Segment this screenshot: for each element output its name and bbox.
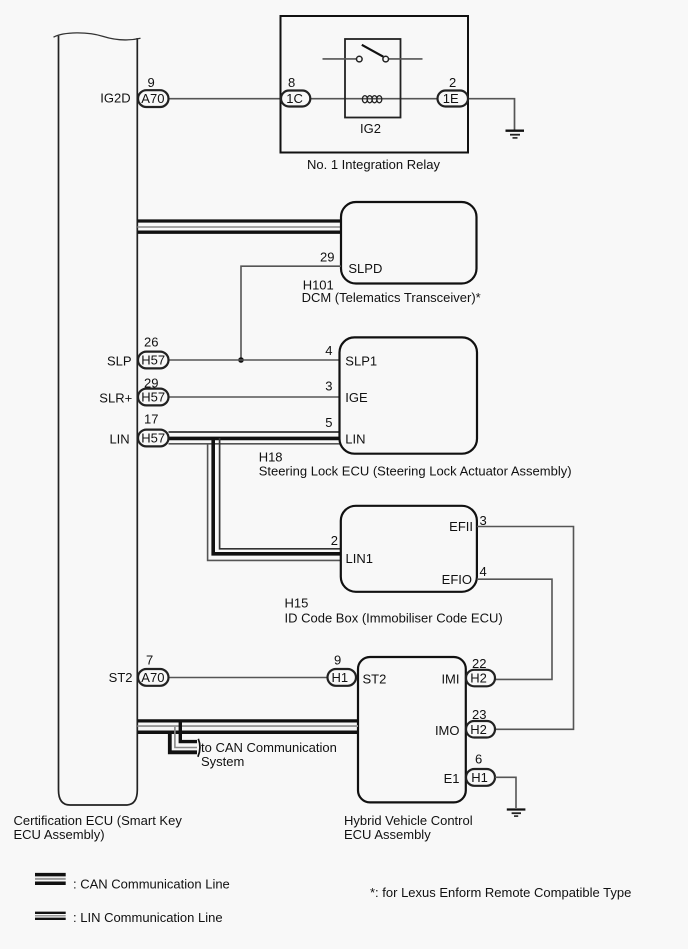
svg-text:1E: 1E: [443, 91, 459, 106]
svg-text:8: 8: [288, 75, 295, 90]
svg-text:LIN: LIN: [109, 432, 129, 447]
svg-text:DCM (Telematics Transceiver)*: DCM (Telematics Transceiver)*: [302, 290, 481, 305]
svg-text:IMO: IMO: [435, 723, 460, 738]
connector H57 pin 17 (LIN): [109, 412, 168, 447]
wire SLPD pin 29 to SLP node: [241, 266, 341, 360]
svg-text:SLP1: SLP1: [345, 354, 377, 369]
svg-text:Hybrid Vehicle Control: Hybrid Vehicle Control: [344, 813, 473, 828]
wire EFIO to IMI: [477, 579, 552, 679]
wire SLP: [169, 359, 340, 361]
svg-text:3: 3: [325, 379, 332, 394]
label H15 / ID Code Box caption: [285, 596, 503, 626]
svg-text:H57: H57: [141, 431, 165, 446]
svg-text:ECU Assembly: ECU Assembly: [344, 827, 431, 842]
wire ST2 A70 to H1: [169, 677, 328, 679]
connector H57 pin 29 (SLR+): [99, 376, 168, 406]
svg-text:IG2: IG2: [360, 121, 381, 136]
svg-text:H57: H57: [141, 353, 165, 368]
label Hybrid caption: [344, 813, 473, 842]
svg-text:ST2: ST2: [109, 670, 133, 685]
svg-text:Certification ECU (Smart Key: Certification ECU (Smart Key: [14, 813, 183, 828]
svg-text:EFIO: EFIO: [442, 572, 472, 587]
wire SLR+ to IGE: [169, 396, 340, 398]
label to CAN Communication System: [201, 740, 337, 769]
relay IG2 inner box: [345, 39, 401, 118]
connector H1 pin 9 (ST2): [328, 653, 357, 686]
svg-text:2: 2: [331, 533, 338, 548]
Certification ECU (Smart Key ECU Assembly) box: [54, 33, 141, 805]
LIN bus branch to ID Code Box: [208, 438, 341, 560]
svg-text:E1: E1: [444, 771, 460, 786]
svg-text:29: 29: [320, 250, 334, 265]
svg-text:22: 22: [472, 656, 486, 671]
svg-text:EFII: EFII: [449, 519, 473, 534]
svg-text:SLPD: SLPD: [348, 261, 382, 276]
svg-text:System: System: [201, 754, 244, 769]
junction node: [238, 357, 244, 363]
svg-text:A70: A70: [141, 91, 164, 106]
svg-text:4: 4: [480, 564, 487, 579]
svg-text:ST2: ST2: [363, 672, 387, 687]
svg-text:H57: H57: [141, 390, 165, 405]
connector 1C pin 8: [281, 75, 310, 107]
connector H1 pin 6 (E1): [466, 752, 495, 786]
svg-text:26: 26: [144, 334, 158, 349]
wire IG2D A70 to relay 1C: [169, 98, 282, 100]
svg-text:SLR+: SLR+: [99, 391, 132, 406]
ID Code Box H15: [341, 506, 477, 592]
svg-text:SLP: SLP: [107, 354, 132, 369]
No. 1 Integration Relay box: [281, 16, 469, 153]
CAN bus wire to DCM: [138, 221, 342, 232]
CAN bus wire to Hybrid ECU: [138, 721, 359, 732]
svg-text:: LIN Communication Line: : LIN Communication Line: [73, 910, 223, 925]
svg-text:Steering Lock ECU (Steering Lo: Steering Lock ECU (Steering Lock Actuato…: [259, 464, 572, 479]
svg-text:: CAN Communication Line: : CAN Communication Line: [73, 877, 230, 892]
legend LIN Communication Line: [35, 910, 223, 925]
relay switch leads: [323, 58, 357, 60]
svg-text:No. 1 Integration Relay: No. 1 Integration Relay: [307, 157, 440, 172]
svg-text:ECU Assembly): ECU Assembly): [14, 827, 105, 842]
svg-text:A70: A70: [141, 670, 164, 685]
svg-text:to CAN Communication: to CAN Communication: [201, 740, 337, 755]
svg-text:9: 9: [334, 653, 341, 668]
label Certification ECU caption: [14, 813, 183, 842]
ground (relay): [506, 131, 525, 138]
svg-text:1C: 1C: [286, 91, 303, 106]
svg-text:7: 7: [146, 653, 153, 668]
label H18 / Steering Lock caption: [259, 450, 572, 479]
relay coil IG2: [362, 96, 381, 103]
svg-text:H2: H2: [470, 671, 487, 686]
connector H2 pin 23 (IMO): [466, 707, 495, 738]
svg-text:IMI: IMI: [441, 672, 459, 687]
svg-text:29: 29: [144, 376, 158, 391]
svg-text:2: 2: [449, 75, 456, 90]
CAN stub to CAN Communication System: [170, 722, 200, 757]
svg-text:23: 23: [472, 707, 486, 722]
relay switch blade: [362, 45, 384, 57]
Steering Lock ECU box H18: [340, 337, 478, 453]
svg-text:LIN1: LIN1: [346, 551, 373, 566]
connector H57 pin 26 (SLP): [107, 334, 168, 368]
connector A70 pin 7 (ST2): [109, 653, 169, 686]
svg-text:H15: H15: [285, 596, 309, 611]
svg-text:4: 4: [325, 343, 332, 358]
DCM (Telematics Transceiver) box H101: [341, 202, 477, 284]
svg-text:H1: H1: [332, 670, 349, 685]
svg-text:9: 9: [148, 75, 155, 90]
svg-text:ID Code Box (Immobiliser Code: ID Code Box (Immobiliser Code ECU): [285, 611, 503, 626]
wire EFII to IMO: [477, 527, 574, 730]
svg-text:IG2D: IG2D: [100, 91, 130, 106]
connector H2 pin 22 (IMI): [466, 656, 495, 686]
ground (E1): [507, 810, 526, 817]
LIN bus wire to Steering Lock ECU: [169, 432, 340, 444]
wire E1 to ground: [495, 777, 516, 808]
svg-text:6: 6: [475, 752, 482, 767]
svg-text:H18: H18: [259, 450, 283, 465]
Hybrid Vehicle Control ECU box: [358, 657, 466, 802]
svg-text:5: 5: [325, 415, 332, 430]
legend CAN Communication Line: [35, 875, 230, 892]
connector A70 pin 9 (IG2D): [100, 75, 168, 107]
svg-text:*: for Lexus Enform Remote Com: *: for Lexus Enform Remote Compatible Ty…: [370, 885, 631, 900]
wire 1C to 1E through relay: [310, 98, 438, 100]
svg-text:LIN: LIN: [345, 432, 365, 447]
svg-text:H2: H2: [470, 722, 487, 737]
label H101 / DCM caption: [302, 278, 481, 306]
relay switch contacts: [357, 56, 363, 62]
svg-text:17: 17: [144, 412, 158, 427]
svg-text:H1: H1: [471, 770, 488, 785]
connector 1E pin 2: [438, 75, 469, 107]
svg-text:IGE: IGE: [345, 390, 368, 405]
wire 1E to ground: [468, 99, 515, 130]
